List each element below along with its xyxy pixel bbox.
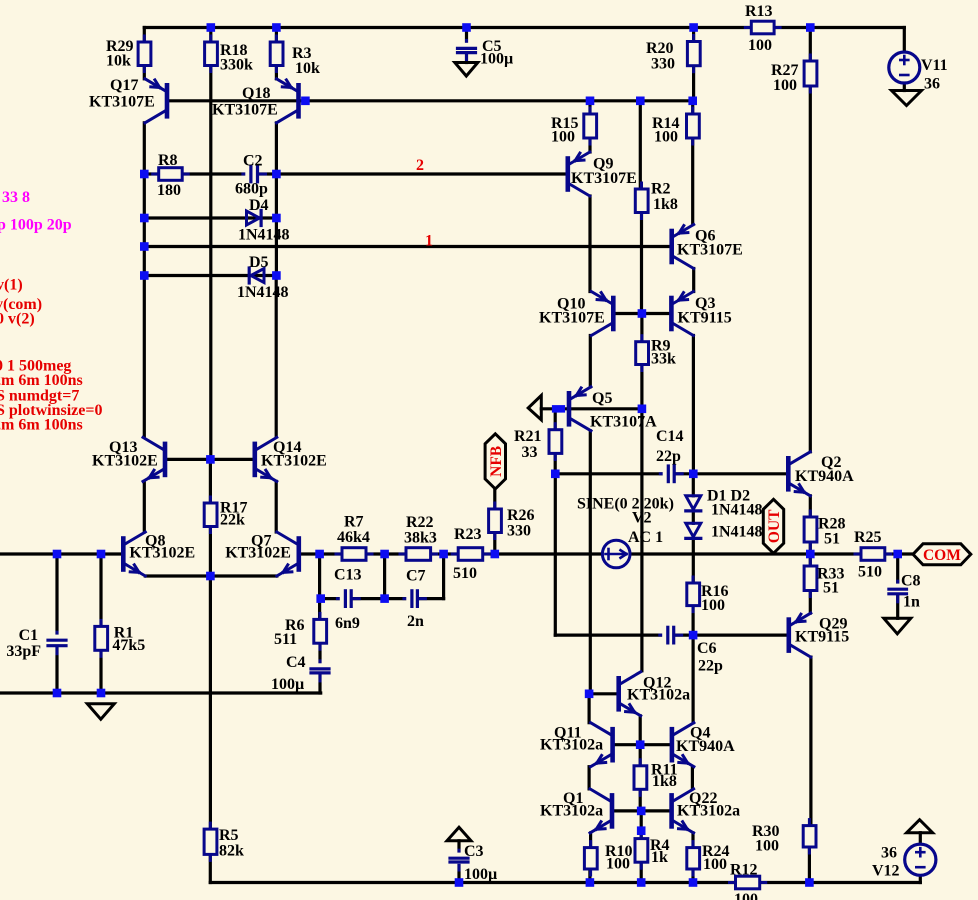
svg-text:R22: R22: [406, 514, 434, 531]
transistor Q3: [669, 298, 674, 329]
resistor R24: [692, 842, 695, 875]
svg-text:KT940A: KT940A: [676, 738, 735, 755]
svg-text:C14: C14: [656, 428, 684, 445]
svg-text:47k5: 47k5: [112, 637, 145, 654]
wire: [554, 413, 557, 430]
resistor R4: [640, 833, 643, 869]
resistor R15: [589, 108, 592, 144]
svg-text:100: 100: [703, 856, 727, 873]
transistor Q18: [296, 85, 301, 116]
resistor R5: [209, 823, 212, 860]
wire: [209, 459, 212, 503]
wire: [275, 123, 278, 276]
wire: [465, 28, 468, 49]
wire: [612, 809, 672, 812]
wire: [143, 123, 146, 174]
wire: [210, 881, 735, 884]
svg-text:R25: R25: [854, 529, 882, 546]
transistor Q2: [786, 458, 791, 489]
svg-text:36: 36: [881, 845, 897, 862]
capacitor C6: [660, 634, 682, 637]
junction: [462, 23, 471, 32]
svg-text:R20: R20: [646, 40, 674, 57]
svg-text:82k: 82k: [219, 843, 244, 860]
svg-text:10k: 10k: [295, 60, 320, 77]
svg-text:R13: R13: [745, 3, 773, 20]
wire: [465, 53, 468, 63]
svg-text:C2: C2: [243, 153, 263, 170]
wire: [209, 576, 212, 829]
svg-text:KT3102a: KT3102a: [627, 687, 690, 704]
junction: [207, 23, 216, 32]
svg-text:100µ: 100µ: [271, 676, 304, 693]
wire: [209, 527, 212, 577]
diode D5: [251, 269, 264, 283]
ground: [907, 820, 933, 833]
wire: [896, 594, 899, 619]
junction: [893, 550, 902, 559]
svg-text:KT3102a: KT3102a: [677, 803, 740, 820]
transistor Q5: [567, 393, 572, 424]
transistor Q9: [565, 159, 570, 190]
wire: [587, 694, 590, 723]
svg-text:V12: V12: [872, 863, 900, 880]
junction: [491, 550, 500, 559]
transistor Q1: [610, 795, 615, 826]
wire: [275, 28, 278, 43]
svg-text:v(1): v(1): [0, 277, 23, 294]
svg-text:100µ: 100µ: [480, 51, 513, 68]
junction: [586, 97, 595, 106]
wire: [143, 66, 146, 79]
diode D4: [247, 211, 260, 225]
diode D2: [686, 523, 701, 537]
resistor R22: [400, 553, 437, 556]
capacitor C8: [896, 581, 899, 602]
wire: [275, 66, 278, 79]
svg-text:680p: 680p: [235, 181, 268, 198]
wire: [144, 216, 276, 219]
wire: [143, 28, 146, 43]
svg-text:KT3107E: KT3107E: [571, 170, 637, 187]
junction: [206, 572, 215, 581]
wire: [299, 552, 861, 555]
wire: [442, 554, 445, 599]
ground: [455, 63, 478, 77]
junction: [689, 878, 698, 887]
capacitor C4: [319, 661, 322, 681]
resistor R18: [209, 36, 212, 72]
wire: [760, 881, 921, 884]
svg-text:1N4148: 1N4148: [238, 227, 290, 244]
wire: [919, 875, 922, 882]
junction: [140, 170, 149, 179]
svg-text:1 33 8: 1 33 8: [0, 189, 30, 206]
svg-text:2n: 2n: [407, 613, 424, 630]
resistor R30: [808, 820, 811, 853]
wire: [808, 847, 811, 883]
wire: [692, 474, 695, 496]
junction: [272, 271, 281, 280]
svg-text:V11: V11: [921, 57, 948, 74]
wire: [588, 101, 591, 114]
svg-text:KT3102a: KT3102a: [540, 803, 603, 820]
resistor R16: [692, 577, 695, 612]
voltage source V11: [889, 52, 920, 83]
junction: [316, 594, 325, 603]
svg-text:36: 36: [924, 76, 940, 93]
svg-text:KT3107A: KT3107A: [590, 414, 657, 431]
svg-text:0 v(2): 0 v(2): [0, 311, 35, 328]
transistor Q7: [296, 539, 301, 570]
svg-text:22p: 22p: [656, 448, 681, 465]
wire: [588, 196, 591, 292]
svg-text:D5: D5: [249, 254, 269, 271]
svg-text:p 100p 20p: p 100p 20p: [0, 217, 72, 234]
wire: [493, 533, 496, 555]
svg-text:100: 100: [654, 129, 678, 146]
flag NFB: [485, 434, 505, 489]
junction: [140, 271, 149, 280]
svg-text:100: 100: [606, 855, 630, 872]
junction: [806, 23, 815, 32]
wire: [903, 28, 906, 53]
svg-text:R2: R2: [651, 181, 671, 198]
resistor R8: [153, 173, 189, 176]
wire: [589, 833, 592, 848]
capacitor C13: [337, 597, 359, 600]
ground: [447, 827, 471, 841]
svg-text:330: 330: [651, 56, 675, 73]
wire: [144, 172, 568, 175]
svg-text:Q5: Q5: [592, 390, 612, 407]
wire: [589, 431, 592, 694]
wire: [885, 552, 913, 555]
wire: [143, 174, 146, 437]
svg-text:100: 100: [551, 129, 575, 146]
junction: [688, 97, 697, 106]
wire: [640, 314, 643, 342]
wire: [541, 407, 642, 410]
capacitor C1: [56, 632, 59, 654]
wire: [692, 66, 695, 101]
wire: [640, 862, 643, 882]
svg-text:R5: R5: [219, 827, 239, 844]
svg-text:1k8: 1k8: [652, 773, 677, 790]
svg-text:KT3102E: KT3102E: [261, 453, 327, 470]
capacitor C2: [243, 173, 266, 176]
diode D1: [686, 496, 701, 510]
resistor R10: [589, 842, 592, 875]
wire: [167, 99, 694, 102]
svg-text:R12: R12: [730, 862, 758, 879]
wire: [144, 245, 671, 248]
resistor R26: [493, 503, 496, 539]
svg-text:100: 100: [748, 37, 772, 54]
junction: [637, 878, 646, 887]
svg-text:6n9: 6n9: [335, 615, 360, 632]
svg-text:C6: C6: [697, 640, 717, 657]
junction: [206, 455, 215, 464]
junction: [586, 878, 595, 887]
svg-text:KT3102E: KT3102E: [129, 545, 195, 562]
transistor Q13: [163, 444, 168, 475]
wire: [554, 453, 557, 473]
wire: [809, 28, 812, 62]
junction: [53, 550, 62, 559]
wire: [321, 597, 444, 600]
wire: [691, 101, 694, 114]
resistor R3: [275, 36, 278, 72]
transistor Q14: [253, 444, 258, 475]
svg-text:KT3102E: KT3102E: [225, 545, 291, 562]
junction: [585, 690, 594, 699]
wire: [209, 66, 212, 460]
wire: [903, 83, 906, 91]
wire: [692, 28, 695, 42]
resistor R13: [745, 26, 780, 29]
svg-text:R7: R7: [344, 514, 364, 531]
resistor R21: [554, 424, 557, 460]
resistor R23: [452, 553, 489, 556]
wire: [613, 743, 672, 746]
wire: [692, 540, 695, 583]
wire: [692, 336, 695, 474]
junction: [636, 97, 645, 106]
wire: [692, 513, 695, 524]
svg-text:510: 510: [453, 565, 477, 582]
wire: [587, 767, 590, 789]
junction: [638, 405, 647, 414]
wire: [588, 138, 591, 152]
wire: [691, 138, 694, 225]
resistor R7: [336, 553, 372, 556]
wire: [809, 86, 812, 452]
wire: [209, 28, 212, 43]
svg-text:C13: C13: [334, 567, 362, 584]
wire: [318, 554, 321, 619]
svg-text:C7: C7: [406, 568, 426, 585]
ground: [884, 618, 911, 634]
resistor R14: [691, 108, 694, 144]
wire: [554, 474, 557, 635]
svg-text:OUT: OUT: [766, 509, 783, 543]
junction: [689, 631, 698, 640]
junction: [140, 242, 149, 251]
wire: [640, 811, 643, 839]
svg-text:330: 330: [507, 523, 531, 540]
wire: [774, 26, 904, 29]
wire: [919, 833, 922, 844]
wire: [493, 489, 496, 509]
capacitor C14: [660, 472, 682, 475]
wire: [691, 869, 694, 883]
svg-text:AC 1: AC 1: [628, 529, 663, 546]
svg-text:1n: 1n: [903, 594, 920, 611]
svg-text:R21: R21: [514, 428, 542, 445]
svg-text:1N4148: 1N4148: [711, 524, 763, 541]
junction: [637, 826, 646, 835]
svg-text:KT3107E: KT3107E: [89, 94, 155, 111]
junction: [140, 214, 149, 223]
svg-text:C4: C4: [286, 654, 306, 671]
svg-text:R23: R23: [454, 526, 482, 543]
voltage source V12: [905, 844, 936, 875]
wire: [99, 554, 102, 693]
svg-text:51: 51: [823, 580, 839, 597]
svg-text:22p: 22p: [698, 658, 723, 675]
junction: [272, 170, 281, 179]
svg-text:Q17: Q17: [110, 77, 138, 94]
wire: [589, 692, 619, 695]
flag OUT: [763, 499, 783, 553]
wire: [209, 854, 212, 882]
wire: [145, 574, 276, 577]
svg-text:1N4148: 1N4148: [237, 284, 289, 301]
svg-text:1k: 1k: [651, 849, 668, 866]
svg-text:2m 6m 100ns: 2m 6m 100ns: [0, 417, 83, 434]
wire: [457, 841, 460, 883]
svg-text:KT3102E: KT3102E: [92, 453, 158, 470]
wire: [588, 869, 591, 883]
resistor R20: [692, 36, 695, 72]
resistor R1: [100, 620, 103, 656]
junction: [552, 405, 565, 413]
wire: [692, 269, 695, 292]
wire: [144, 26, 751, 29]
svg-text:100: 100: [755, 838, 779, 855]
svg-text:22k: 22k: [220, 512, 245, 529]
wire: [639, 101, 642, 189]
svg-text:33: 33: [522, 444, 538, 461]
junction: [551, 470, 560, 479]
ground: [87, 704, 114, 720]
flag COM: [913, 544, 971, 565]
wire: [809, 657, 812, 826]
transistor Q6: [669, 231, 674, 262]
wire: [589, 336, 592, 387]
svg-text:180: 180: [157, 182, 181, 199]
svg-text:C3: C3: [464, 843, 484, 860]
wire: [55, 554, 58, 693]
wire: [691, 606, 694, 636]
wire: [691, 635, 694, 723]
junction: [315, 550, 324, 559]
transistor Q17: [165, 85, 170, 116]
transistor Q10: [611, 298, 616, 329]
wire: [0, 552, 123, 555]
junction: [380, 550, 389, 559]
svg-text:KT3107E: KT3107E: [539, 310, 605, 327]
wire: [318, 643, 321, 693]
svg-text:COM: COM: [923, 547, 961, 564]
resistor R25: [855, 553, 891, 556]
junction: [97, 689, 106, 698]
capacitor C7: [404, 597, 426, 600]
transistor Q11: [610, 729, 615, 760]
svg-text:33k: 33k: [651, 351, 676, 368]
svg-text:33pF: 33pF: [6, 643, 41, 660]
wire: [165, 458, 255, 461]
svg-text:R8: R8: [158, 152, 178, 169]
wire: [640, 409, 643, 671]
wire: [640, 213, 643, 314]
wire: [555, 472, 788, 475]
svg-text:NFB: NFB: [488, 446, 505, 477]
svg-text:KT3107E: KT3107E: [212, 102, 278, 119]
svg-text:100: 100: [773, 77, 797, 94]
svg-text:100: 100: [701, 597, 725, 614]
capacitor C3: [458, 850, 461, 870]
svg-text:D4: D4: [249, 197, 269, 214]
transistor Q29: [786, 620, 791, 651]
capacitor C5: [465, 40, 468, 60]
wire: [896, 554, 899, 589]
junction: [301, 97, 310, 106]
resistor R2: [640, 183, 643, 219]
svg-text:1k8: 1k8: [653, 196, 678, 213]
wire: [640, 365, 643, 409]
resistor R27: [809, 55, 812, 92]
wire: [809, 496, 812, 517]
junction: [380, 594, 389, 603]
wire: [639, 789, 642, 811]
wire: [639, 716, 642, 745]
wire: [144, 274, 276, 277]
svg-text:51: 51: [824, 531, 840, 548]
wire: [383, 554, 386, 599]
arrow terminal: [528, 395, 541, 420]
svg-text:511: 511: [274, 631, 297, 648]
svg-text:KT3107E: KT3107E: [677, 242, 743, 259]
junction: [53, 689, 62, 698]
svg-text:330k: 330k: [220, 57, 253, 74]
junction: [805, 878, 814, 887]
svg-text:KT9115: KT9115: [795, 629, 849, 646]
transistor Q22: [669, 795, 674, 826]
wire: [0, 691, 321, 694]
svg-text:10k: 10k: [106, 53, 131, 70]
wire: [809, 542, 812, 554]
junction: [638, 309, 647, 318]
junction: [272, 214, 281, 223]
resistor R17: [209, 497, 212, 533]
junction: [439, 550, 448, 559]
junction: [689, 23, 698, 32]
transistor Q4: [670, 729, 675, 760]
transistor Q8: [121, 539, 126, 570]
svg-text:KT3102a: KT3102a: [540, 737, 603, 754]
resistor R11: [639, 760, 642, 796]
svg-text:100: 100: [734, 891, 758, 900]
svg-text:C8: C8: [901, 573, 921, 590]
wire: [275, 481, 278, 532]
wire: [691, 767, 694, 789]
resistor R28: [809, 511, 812, 548]
wire: [809, 591, 812, 614]
wire: [639, 745, 642, 766]
junction: [637, 807, 646, 816]
junction: [636, 740, 645, 749]
junction: [455, 878, 464, 887]
svg-text:1N4148: 1N4148: [711, 502, 763, 519]
ground: [892, 91, 922, 106]
svg-text:Q18: Q18: [242, 85, 270, 102]
svg-text:46k4: 46k4: [337, 529, 370, 546]
svg-text:2: 2: [416, 157, 424, 174]
svg-text:KT940A: KT940A: [795, 468, 854, 485]
resistor R6: [319, 613, 322, 649]
